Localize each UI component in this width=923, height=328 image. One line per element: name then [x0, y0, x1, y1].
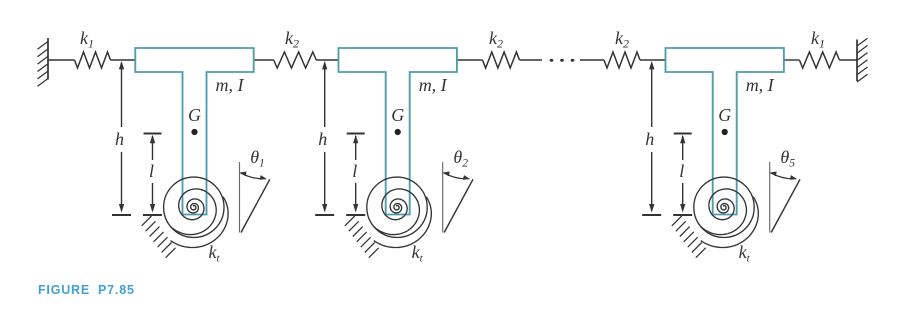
right wall support [857, 38, 868, 82]
svg-text:l: l [149, 161, 154, 181]
center of mass dot [395, 129, 401, 135]
wire spring k2 to mass 3 [640, 59, 665, 61]
svg-text:h: h [645, 129, 654, 149]
spring k2 (third) [604, 52, 640, 68]
dimension arrow l [680, 135, 685, 213]
wire mass 2 to spring k2 second [457, 59, 483, 61]
wire spring to ellipsis [520, 59, 543, 61]
svg-text:G: G [188, 105, 201, 125]
angle theta_1 arc arrow [239, 172, 267, 180]
torsional spring k_t spiral 2 [374, 189, 420, 235]
torsional spring k_t spiral 1 [171, 189, 217, 235]
ground hatching under spiral [345, 216, 379, 258]
svg-text:l: l [679, 161, 684, 181]
svg-text:G: G [718, 105, 731, 125]
wire wall to spring k1 [48, 59, 75, 61]
svg-text:h: h [115, 129, 124, 149]
dimension arrow h [119, 61, 124, 213]
wire spring k2 to mass 2 [316, 59, 338, 61]
angle theta_5 reference vertical [769, 162, 771, 233]
center of mass dot [722, 129, 728, 135]
svg-text:m, I: m, I [216, 75, 245, 95]
ground tick for h [315, 214, 334, 216]
ground hatching under spiral [672, 216, 706, 258]
bottom tick for l [143, 214, 162, 216]
angle theta_5 arc arrow [769, 172, 797, 180]
spring k1 (right) [799, 52, 839, 68]
T-shaped rigid body (mass) 2 [339, 48, 457, 215]
spring k1 (left) [75, 52, 111, 68]
T-shaped rigid body (mass) 5 [666, 48, 784, 215]
angle theta_5 rotated line [771, 179, 800, 232]
ground tick for h [112, 214, 131, 216]
top tick for l [674, 133, 692, 135]
angle theta_2 reference vertical [442, 162, 444, 233]
torsional spring k_t spiral 5 [701, 189, 747, 235]
angle theta_1 reference vertical [239, 162, 241, 233]
angle theta_2 rotated line [444, 179, 473, 232]
ground hatching under spiral [142, 216, 176, 258]
figure caption [38, 283, 135, 297]
svg-text:h: h [318, 129, 327, 149]
spring k2 (second) [483, 52, 520, 68]
wire mass 1 to spring k2 [254, 59, 274, 61]
bottom tick for l [673, 214, 692, 216]
dimension arrow h [649, 61, 654, 213]
wire spring k1 to right wall [839, 59, 857, 61]
angle theta_2 arc arrow [442, 172, 470, 180]
dimension arrow l [150, 135, 155, 213]
wire ellipsis to spring k2 third [580, 59, 604, 61]
left wall support [38, 38, 49, 86]
svg-text:m, I: m, I [746, 75, 775, 95]
wire spring k1 to mass 1 [111, 59, 136, 61]
bottom tick for l [346, 214, 365, 216]
svg-text:G: G [391, 105, 404, 125]
T-shaped rigid body (mass) 1 [135, 48, 253, 215]
center of mass dot [191, 129, 197, 135]
wire mass 3 to spring k1 right [785, 59, 800, 61]
svg-text:l: l [352, 161, 357, 181]
spring k2 (first) [274, 52, 317, 68]
dimension arrow h [322, 61, 327, 213]
dimension arrow l [353, 135, 358, 213]
top tick for l [347, 133, 365, 135]
angle theta_1 rotated line [241, 179, 270, 232]
top tick for l [144, 133, 162, 135]
ellipsis dots [550, 59, 575, 62]
svg-text:m, I: m, I [419, 75, 448, 95]
ground tick for h [642, 214, 661, 216]
